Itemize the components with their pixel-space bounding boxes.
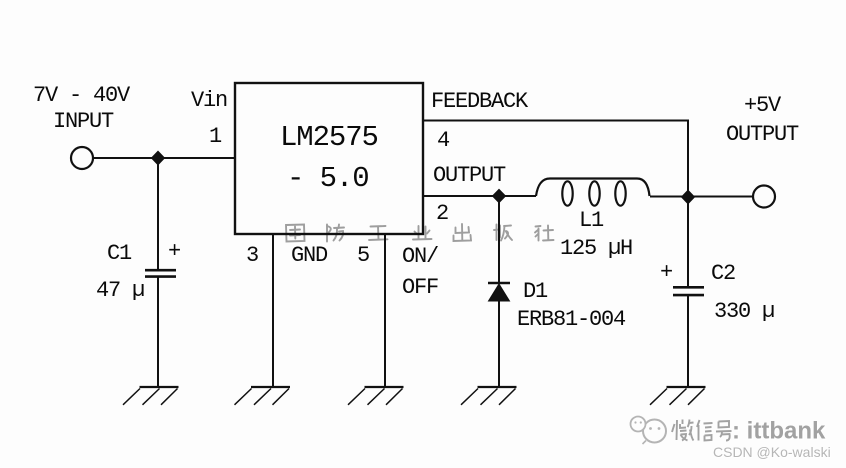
svg-text:ERB81-004: ERB81-004 <box>517 307 626 332</box>
watermark char 国 <box>286 225 305 242</box>
svg-text:OFF: OFF <box>402 275 438 300</box>
svg-text:CSDN @Ko-walski: CSDN @Ko-walski <box>713 444 831 460</box>
svg-text:4: 4 <box>437 128 450 153</box>
svg-text:INPUT: INPUT <box>53 109 114 134</box>
svg-text:+: + <box>660 260 672 285</box>
ground C1 <box>123 387 179 405</box>
capacitor C2 <box>673 287 704 295</box>
svg-text:3: 3 <box>246 243 258 268</box>
wire pin3 GND lead <box>272 234 274 387</box>
svg-text:5: 5 <box>357 243 369 268</box>
watermark char 社 <box>535 226 554 241</box>
wire L1 to output <box>650 196 753 198</box>
svg-text:GND: GND <box>291 243 328 268</box>
node junction input/C1 <box>152 151 165 165</box>
svg-text:C2: C2 <box>711 261 735 286</box>
ground pin3 <box>235 387 291 405</box>
watermark char 工 <box>369 226 388 240</box>
wechat char 信 <box>697 420 713 441</box>
wire input to pin1 <box>93 157 235 159</box>
svg-text:D1: D1 <box>523 279 548 304</box>
wire C2 bottom lead <box>687 295 689 387</box>
svg-text:ON/: ON/ <box>402 244 438 269</box>
svg-text:C1: C1 <box>107 241 132 266</box>
svg-text:L1: L1 <box>579 208 604 233</box>
wechat char 号 <box>716 421 732 441</box>
wire D1 bottom lead <box>498 301 500 387</box>
capacitor C1 <box>145 270 176 276</box>
wire C1 top lead <box>157 158 159 269</box>
output terminal circle <box>753 186 775 208</box>
svg-text:2: 2 <box>436 201 448 226</box>
wechat text ittbank <box>732 418 827 447</box>
watermark char 业 <box>413 226 432 240</box>
node junction D1 <box>493 189 506 202</box>
svg-text:+: + <box>168 239 180 264</box>
svg-text:OUTPUT: OUTPUT <box>433 163 506 188</box>
svg-text:125 µH: 125 µH <box>560 236 632 261</box>
watermark char 版 <box>494 225 512 241</box>
svg-text:: ittbank: : ittbank <box>732 418 826 445</box>
ground D1 <box>461 387 517 405</box>
svg-text:+5V: +5V <box>744 93 782 118</box>
diode D1 <box>488 283 510 301</box>
IC U1 LM2575-5.0 body <box>235 83 423 234</box>
wire C1 bottom lead <box>157 277 159 387</box>
svg-text:OUTPUT: OUTPUT <box>726 122 799 147</box>
csdn author text <box>713 444 832 461</box>
svg-text:7V - 40V: 7V - 40V <box>33 83 131 108</box>
ground C2 <box>650 387 706 405</box>
watermark char 出 <box>454 224 472 241</box>
wechat char 微 <box>672 420 694 441</box>
svg-text:- 5.0: - 5.0 <box>287 162 369 195</box>
wechat icon <box>631 417 667 445</box>
wire D1 top lead <box>498 196 500 283</box>
svg-text:FEEDBACK: FEEDBACK <box>431 89 529 114</box>
svg-text:LM2575: LM2575 <box>280 121 378 154</box>
inductor L1 <box>536 179 650 206</box>
svg-text:Vin: Vin <box>191 88 227 113</box>
wire feedback pin4 <box>423 121 688 198</box>
ground pin5 <box>348 387 404 405</box>
wire C2 top lead <box>687 197 689 286</box>
svg-text:330 µ: 330 µ <box>714 299 774 324</box>
wire output pin2 <box>423 195 536 197</box>
wire pin5 ON/OFF lead <box>384 234 386 387</box>
input terminal circle <box>71 147 93 169</box>
node junction C2/feedback <box>682 190 695 204</box>
svg-text:1: 1 <box>209 124 222 149</box>
svg-text:47 µ: 47 µ <box>96 278 144 303</box>
watermark char 防 <box>327 225 344 242</box>
